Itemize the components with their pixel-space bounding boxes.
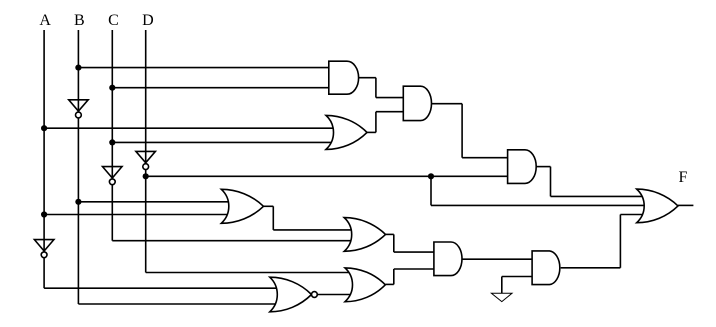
junction C/OR1: [109, 139, 115, 145]
wire input B rail upper: [77, 30, 79, 114]
wire OR3 output drop: [393, 234, 395, 252]
wire D' branch to OR6 input2: [431, 204, 646, 206]
wire OR2 output drop: [272, 206, 274, 230]
wire A' to NOR1 input1: [44, 287, 278, 289]
junction B/AND1: [75, 65, 81, 71]
wire OR2 output to OR3 input1: [273, 229, 352, 231]
wire AND4 output to AND5 input1: [462, 258, 536, 260]
wire input D rail upper: [145, 30, 147, 165]
wire AND3 output stub: [536, 166, 550, 168]
wire AND3 route to OR6 input1: [551, 195, 643, 197]
svg-text:F: F: [679, 169, 688, 186]
wire input B rail lower: [77, 118, 79, 304]
wire C' to OR3 input2: [112, 240, 352, 242]
OR gate 2 (B+A): [221, 189, 263, 223]
wire input A rail lower (A' to corner): [43, 258, 45, 289]
wire input C rail upper: [111, 30, 113, 181]
inverter on D: [136, 151, 156, 169]
inverter on B: [69, 100, 89, 118]
wire A to OR2 input2: [44, 214, 229, 216]
wire OR1 output rise: [375, 112, 377, 133]
wire ground drop: [501, 277, 503, 294]
wire OR6 input3 drop: [619, 215, 621, 268]
wire AND1 output drop: [375, 78, 377, 98]
wire OR2 output stub: [262, 205, 273, 207]
wire C to AND1 input2: [112, 87, 332, 89]
wire C to OR1 input2: [112, 141, 334, 143]
junction A/OR2: [41, 211, 47, 217]
junction B/OR2: [75, 199, 81, 205]
wire input D rail lower (D'): [145, 170, 147, 273]
OR gate 1 (A+C): [326, 115, 367, 149]
wire A to OR1 input1: [44, 127, 334, 129]
wire AND2 output drop: [461, 104, 463, 158]
wire B to AND1 input1: [78, 67, 332, 69]
wire to OR6 input3: [620, 214, 642, 216]
wire D' to OR4 input1: [146, 272, 352, 274]
wire F output: [678, 204, 693, 206]
wire AND1 output stub: [359, 77, 376, 79]
svg-text:C: C: [108, 12, 119, 29]
OR gate 3: [344, 218, 385, 252]
wire AND5 output: [561, 267, 621, 269]
wire AND2 output: [432, 103, 463, 105]
wire AND2 route to AND3 input1: [462, 157, 511, 159]
NOR gate 1 (A'+B): [270, 277, 318, 312]
inverter on C: [103, 167, 123, 185]
wire D' to AND3 input2: [146, 175, 512, 177]
ground: [491, 293, 512, 301]
svg-text:A: A: [39, 12, 51, 29]
wire OR1 route to AND2 input2: [376, 111, 407, 113]
wire B to NOR1 input2: [78, 303, 278, 305]
AND gate 1 (B·C): [329, 61, 359, 94]
svg-text:B: B: [74, 12, 85, 29]
AND gate 4: [434, 242, 462, 276]
wire input A rail upper: [43, 30, 45, 254]
AND gate 5: [532, 251, 560, 285]
wire OR3 output stub: [386, 233, 394, 235]
wire ground to AND5 input2: [502, 276, 536, 278]
wire OR3 route to AND4 input1: [394, 251, 438, 253]
wire input C rail lower (C'): [111, 185, 113, 241]
junction D': [143, 173, 149, 179]
wire AND1 route to AND2 input1: [376, 97, 407, 99]
wire AND3 output drop: [550, 167, 552, 197]
AND gate 2: [403, 86, 431, 120]
wire OR1 output stub: [367, 131, 376, 133]
junction A/OR1: [41, 125, 47, 131]
wire OR4 route to AND4 input2: [394, 268, 438, 270]
wire B to OR2 input1: [78, 201, 229, 203]
OR gate 4: [345, 268, 385, 302]
wire OR4 output stub: [385, 283, 394, 285]
junction C/AND1: [109, 85, 115, 91]
AND gate 3: [508, 150, 537, 184]
inverter on A: [34, 240, 54, 258]
svg-text:D: D: [142, 12, 154, 29]
OR gate 6 output F: [637, 189, 678, 223]
wire NOR1 output to OR4 input2: [317, 294, 352, 296]
wire D' branch drop: [430, 176, 432, 205]
wire OR4 output rise: [393, 269, 395, 284]
junction D' branch: [428, 173, 434, 179]
